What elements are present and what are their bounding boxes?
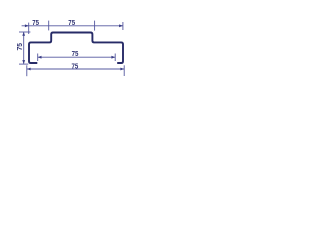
inner width left extension line — [37, 54, 39, 62]
overall width left arrowhead — [27, 68, 31, 71]
svg-text:75: 75 — [72, 63, 79, 70]
overall width right arrowhead — [120, 68, 124, 71]
top dimension left extension line — [28, 23, 30, 34]
inner width right extension line — [114, 54, 116, 62]
hat profile outline — [29, 33, 123, 64]
overall width right extension line — [123, 65, 125, 76]
extension line at left web bend — [48, 21, 50, 31]
top dimension line — [29, 25, 123, 27]
extension line at right web bend — [94, 21, 96, 31]
left height bottom extension line — [19, 63, 28, 65]
top dimension left arrowhead — [25, 24, 29, 27]
overall width dimension line — [27, 68, 124, 70]
overall width left extension line — [26, 65, 28, 76]
left height down arrowhead — [22, 60, 25, 64]
left height up arrowhead — [22, 32, 25, 36]
top dimension right arrowhead — [119, 24, 123, 27]
inner width right arrowhead — [111, 56, 115, 59]
svg-text:75: 75 — [15, 43, 24, 51]
inner width dimension line — [38, 56, 116, 58]
inner width left arrowhead — [38, 56, 42, 59]
svg-text:75: 75 — [72, 51, 79, 58]
svg-text:75: 75 — [32, 20, 39, 27]
top dimension outside arrow tail — [22, 25, 29, 27]
background — [0, 0, 140, 100]
top dimension right extension line — [122, 22, 124, 30]
left height dimension line — [23, 32, 25, 64]
left height top extension line — [19, 31, 30, 33]
svg-text:75: 75 — [68, 20, 75, 27]
